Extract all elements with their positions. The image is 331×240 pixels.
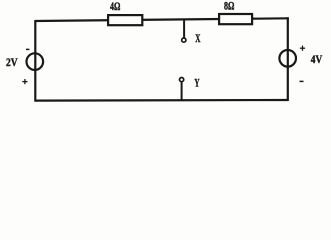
wire: bottom rail from left corner to right corner [35,99,288,102]
polarity minus of V1 (above circle) [26,48,29,50]
resistor R2 8Ω [219,14,252,24]
voltage source V1 circle (2V) [27,53,44,70]
label: node Y [194,77,199,89]
terminal X (open circle) [182,38,186,42]
polarity plus of V2 (above right of circle) [300,46,305,51]
svg-text:8Ω: 8Ω [224,1,234,13]
polarity plus of V1 (below circle) [22,79,27,84]
svg-text:Y: Y [194,77,199,89]
wire: top rail from left corner to right corner [35,18,288,21]
label: node X [195,33,201,45]
label: 2V value [6,57,18,69]
svg-text:X: X [195,33,201,45]
terminal Y (open circle) [180,78,184,82]
label: 8Ω value [224,1,234,13]
label: 4Ω value [110,1,120,13]
resistor R1 4Ω [108,15,142,25]
wire: left branch through 2V source [34,20,36,102]
wire: right branch through 4V source [287,17,289,101]
polarity minus of V2 (below right of circle) [300,80,304,82]
voltage source V2 circle (4V) [279,50,296,67]
wire: stub from top rail down to terminal X [183,20,185,39]
svg-text:2V: 2V [6,57,18,69]
label: 4V value [311,54,323,66]
svg-text:4V: 4V [311,54,323,66]
wire: stub from terminal Y down to bottom rail [181,82,183,101]
svg-text:4Ω: 4Ω [110,1,120,13]
